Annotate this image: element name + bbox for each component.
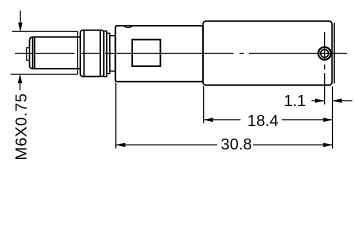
svg-text:30.8: 30.8 [221,137,252,154]
svg-text:M6X0.75: M6X0.75 [13,93,30,160]
svg-text:1.1: 1.1 [284,93,306,110]
svg-text:18.4: 18.4 [247,113,278,130]
